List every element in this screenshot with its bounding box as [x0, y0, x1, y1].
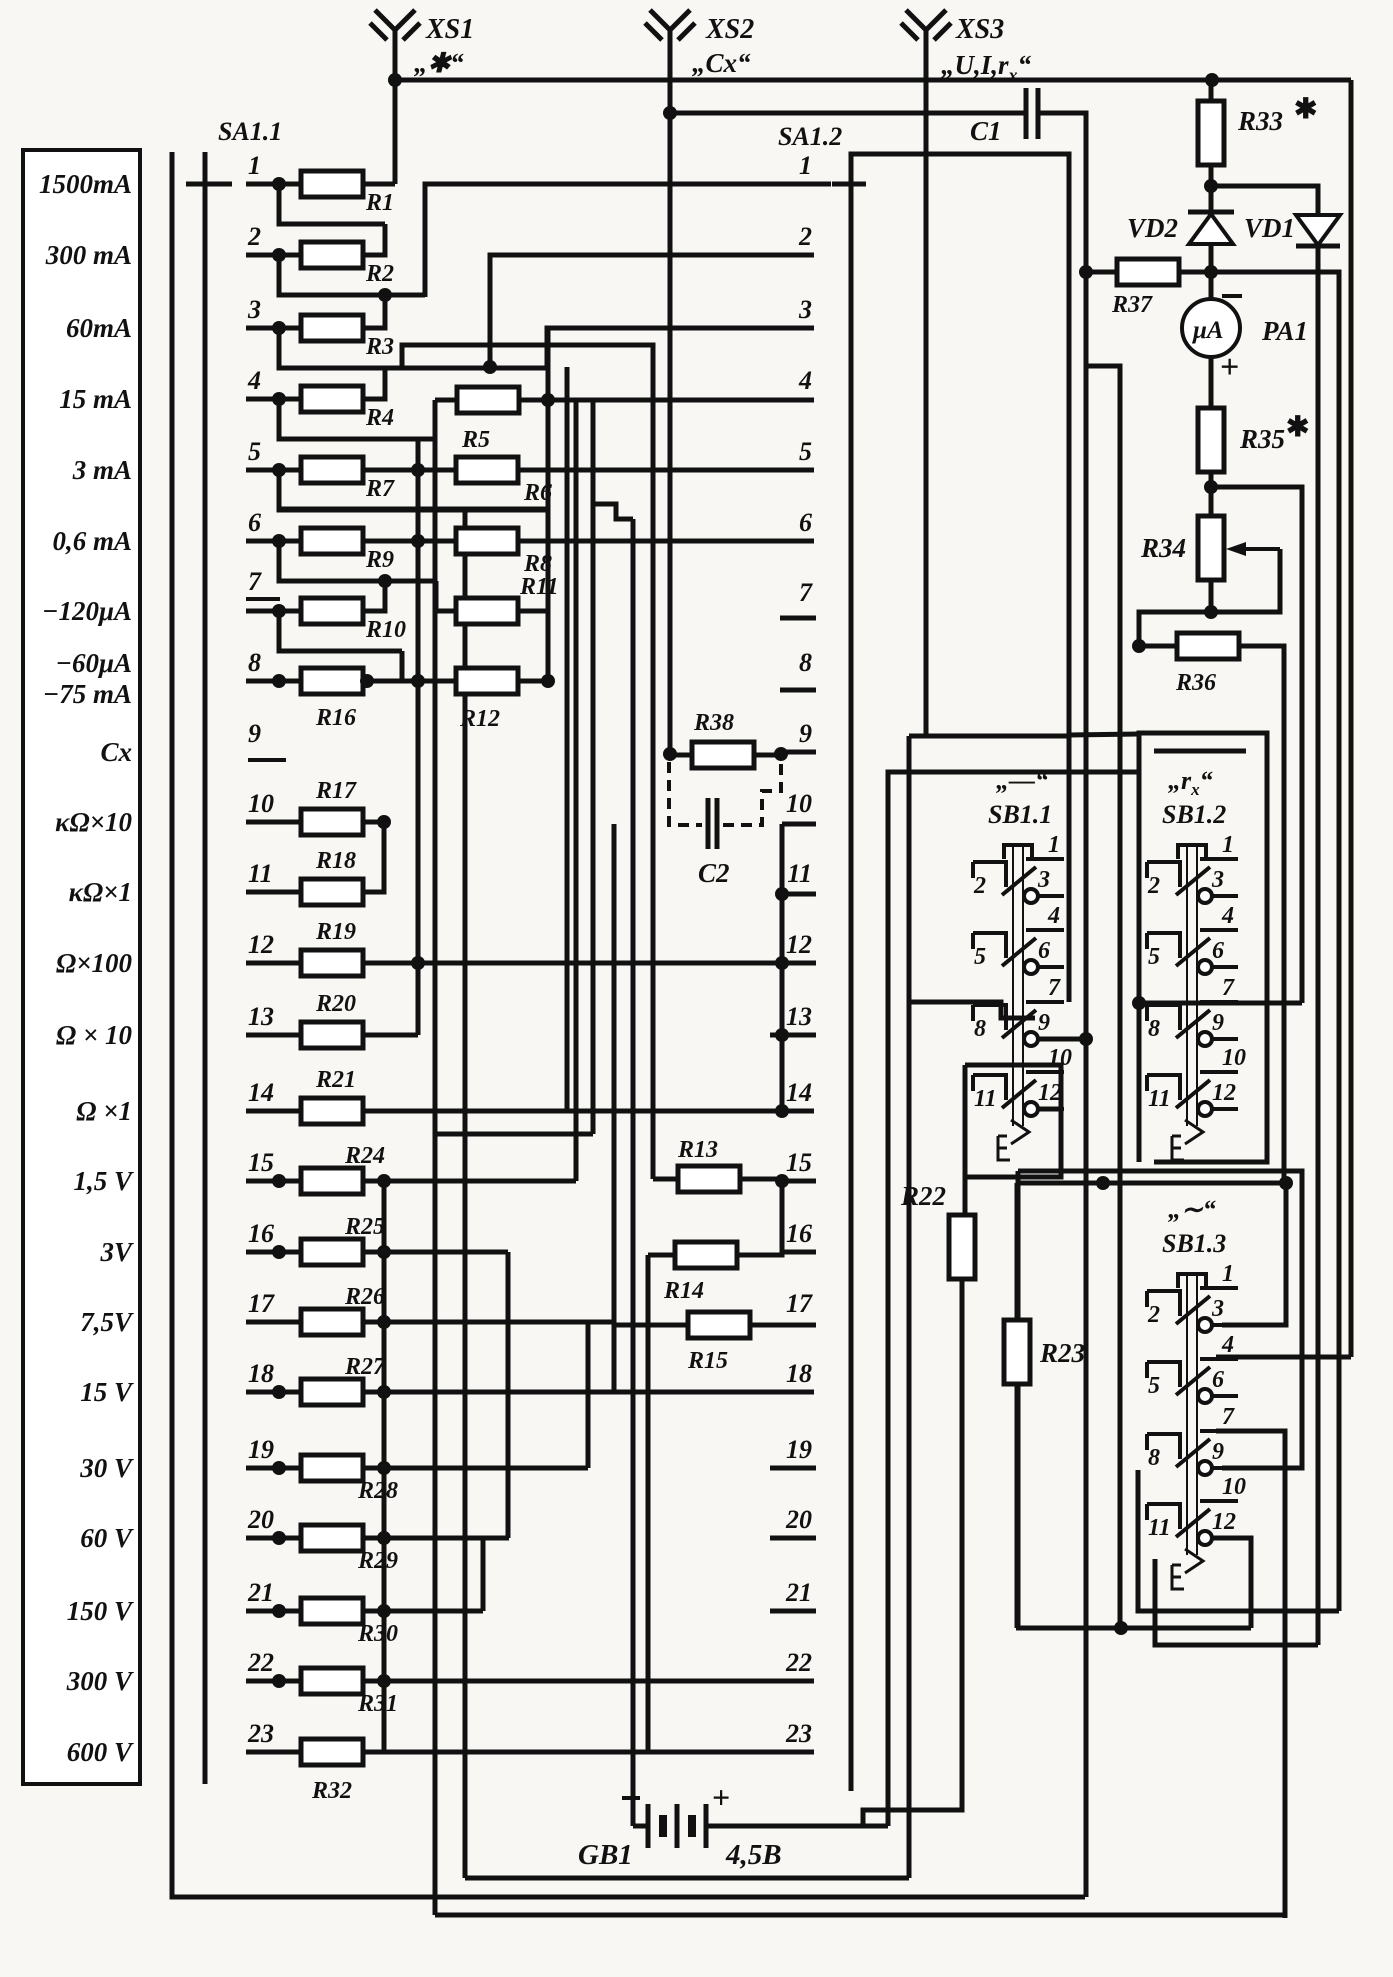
junction dot row20 riser — [377, 1531, 391, 1545]
wire right border — [1349, 80, 1354, 1357]
SA1.1 pin 9 number — [248, 719, 261, 748]
svg-text:VD1: VD1 — [1244, 213, 1295, 243]
svg-text:6: 6 — [1212, 1367, 1224, 1393]
junction dot pin13 chain — [775, 1028, 789, 1042]
wire rail7 drop — [400, 651, 405, 681]
svg-text:15 V: 15 V — [80, 1377, 134, 1407]
wire row6 line — [518, 539, 814, 544]
SA1.2 pin 11 number — [787, 859, 812, 888]
wire R34 top — [1209, 487, 1214, 516]
svg-text:3 mA: 3 mA — [72, 455, 132, 485]
wire riser R3 right — [363, 295, 385, 328]
svg-text:11: 11 — [787, 859, 812, 888]
resistor R35 — [1198, 408, 1309, 472]
junction dot R5 right — [541, 393, 555, 407]
wire riser x418 — [416, 437, 421, 1035]
junction dot pin 21 — [272, 1604, 286, 1618]
svg-text:1: 1 — [248, 151, 261, 180]
SA1.1 pin 16 number — [248, 1219, 274, 1248]
svg-text:11: 11 — [248, 859, 273, 888]
wire row21 line — [363, 1609, 483, 1614]
wire riser R28 right — [363, 1392, 384, 1468]
wire riser R30 right — [363, 1538, 384, 1611]
SA1.2 pin 19 number — [786, 1435, 812, 1464]
svg-text:5: 5 — [1148, 1373, 1160, 1399]
svg-text:R5: R5 — [461, 427, 490, 453]
junction dot row10 — [377, 815, 391, 829]
wire R6 left — [418, 468, 456, 473]
wire row14 line — [363, 1109, 814, 1114]
junction dot pin 19 — [272, 1461, 286, 1475]
junction dot net1183 a — [1096, 1176, 1110, 1190]
svg-text:22: 22 — [785, 1648, 812, 1677]
junction dot R13 right — [775, 1174, 789, 1188]
SA1.2 pin 16 stub — [782, 1250, 816, 1255]
wire riser x435 — [433, 400, 438, 1915]
svg-text:10: 10 — [1222, 1474, 1246, 1500]
svg-text:R35: R35 — [1239, 424, 1285, 454]
wire riser R32 right — [363, 1681, 384, 1752]
SA1.1 pin 19 number — [248, 1435, 274, 1464]
junction dot rail2 — [378, 288, 392, 302]
junction dot XS2 — [663, 106, 677, 120]
svg-text:4,5В: 4,5В — [725, 1839, 782, 1871]
svg-text:4: 4 — [247, 366, 261, 395]
wire R35 bottom — [1209, 472, 1214, 516]
SA1.2 pin 8 underline — [780, 688, 816, 693]
svg-text:R23: R23 — [1039, 1338, 1085, 1368]
junction dot pin12 chain — [775, 956, 789, 970]
wire R6 right riser — [518, 400, 548, 470]
SA1.1 pin 14 lead wire — [246, 1109, 302, 1114]
junction dot R38 left — [663, 747, 677, 761]
svg-text:R9: R9 — [365, 547, 394, 573]
resistor R22 — [900, 1181, 975, 1279]
svg-text:7: 7 — [1048, 975, 1061, 1001]
SA1.1 pin 2 number — [247, 222, 261, 251]
wire C2 dashed left — [669, 762, 702, 825]
svg-text:23: 23 — [247, 1719, 274, 1748]
wire SB1.3 bottom box — [1138, 1470, 1339, 1611]
resistor R2 — [301, 242, 394, 287]
wire row19 line — [363, 1466, 588, 1471]
svg-text:3: 3 — [1211, 867, 1224, 893]
wire staircase row4 drop — [437, 400, 633, 1134]
svg-text:4: 4 — [1221, 903, 1234, 929]
junction dot pin14 chain — [775, 1104, 789, 1118]
svg-text:2: 2 — [1147, 873, 1160, 899]
wire R37 right — [1179, 270, 1211, 275]
svg-text:3: 3 — [1037, 867, 1050, 893]
SA1.1 pin 22 number — [247, 1648, 274, 1677]
svg-text:−60μA: −60μA — [56, 648, 132, 678]
svg-text:15 mA: 15 mA — [59, 384, 132, 414]
SA1.2 pin 15 stub — [782, 1179, 816, 1184]
svg-text:17: 17 — [248, 1289, 275, 1318]
switch SA1.2 bus box — [851, 154, 1069, 1791]
SA1.1 pin 8 number — [248, 648, 261, 677]
wire R16 to R12 — [363, 679, 456, 684]
SA1.2 pin 1 number — [799, 151, 812, 180]
svg-text:30 V: 30 V — [79, 1453, 134, 1483]
svg-text:PA1: PA1 — [1261, 316, 1308, 346]
wire pin chain 10-14 — [780, 824, 785, 1111]
svg-text:R19: R19 — [315, 919, 356, 945]
wire VD1 branch — [1211, 186, 1318, 1645]
SA1.1 pin 6 number — [248, 508, 261, 537]
wire riser R25 right — [363, 1181, 384, 1252]
wire riser x588 — [586, 1322, 591, 1468]
junction dot pin 2 — [272, 248, 286, 262]
svg-text:1: 1 — [799, 151, 812, 180]
wire XS3 stem — [924, 64, 929, 736]
SA1.1 pin 21 number — [247, 1578, 274, 1607]
SA1.1 pin 19 lead wire — [246, 1466, 302, 1471]
wire row20 line — [363, 1536, 509, 1541]
wire R14 right — [737, 1181, 782, 1255]
svg-text:„✱“: „✱“ — [414, 48, 464, 78]
resistor R14 — [663, 1242, 737, 1304]
svg-text:3: 3 — [247, 295, 261, 324]
svg-text:C2: C2 — [698, 858, 730, 888]
svg-text:R31: R31 — [357, 1691, 398, 1717]
svg-text:R7: R7 — [365, 476, 395, 502]
svg-text:12: 12 — [1212, 1509, 1236, 1535]
switch SA1.1 label — [218, 117, 282, 146]
wire row18 line — [363, 1390, 814, 1395]
SA1.1 pin 15 lead wire — [246, 1179, 302, 1184]
wire row15 line — [363, 1179, 576, 1184]
svg-text:R4: R4 — [365, 405, 394, 431]
resistor R37 — [1111, 259, 1179, 318]
junction dot below R33 — [1204, 179, 1218, 193]
svg-text:600 V: 600 V — [67, 1737, 134, 1767]
junction dot rail6 — [378, 574, 392, 588]
svg-text:22: 22 — [247, 1648, 274, 1677]
SA1.1 pin 2 lead wire — [246, 253, 302, 258]
svg-text:12: 12 — [248, 930, 274, 959]
wire riser x614 — [612, 824, 617, 1392]
SA1.2 pin 2 number — [798, 222, 812, 251]
svg-text:7: 7 — [1222, 1404, 1235, 1430]
connector XS3 — [901, 10, 1032, 85]
connector XS1 — [370, 10, 474, 78]
svg-text:R13: R13 — [677, 1137, 718, 1163]
svg-text:3: 3 — [1211, 1296, 1224, 1322]
resistor R19 — [301, 919, 363, 976]
junction dot row17 riser — [377, 1315, 391, 1329]
wire riser x483 — [481, 1538, 486, 1611]
wire net1183 to SB1.3 contact3 — [1222, 1183, 1286, 1325]
svg-text:5: 5 — [974, 944, 986, 970]
svg-text:4: 4 — [1047, 903, 1060, 929]
wire rail below pin 1 — [279, 184, 385, 224]
svg-text:11: 11 — [1148, 1515, 1171, 1541]
SA1.2 pin 4 number — [798, 366, 812, 395]
junction dot row21 riser — [377, 1604, 391, 1618]
SA1.2 pin 17 stub — [750, 1323, 816, 1328]
connector XS2 — [645, 10, 754, 78]
wire R11 right — [518, 609, 548, 614]
svg-text:8: 8 — [1148, 1445, 1160, 1471]
resistor R26 — [301, 1284, 385, 1335]
junction dot pin11 chain — [775, 887, 789, 901]
junction dot rail3 riser — [483, 360, 497, 374]
wire SB1.1 circle9 link — [1038, 1037, 1086, 1042]
svg-text:R18: R18 — [315, 848, 356, 874]
resistor R17 — [301, 778, 363, 835]
wire meter top — [1209, 272, 1214, 299]
wire row5 line — [548, 468, 814, 473]
resistor R36 — [1175, 633, 1239, 696]
resistor R13 — [677, 1137, 740, 1192]
switch SA1.1 bus line B — [203, 152, 208, 1784]
SA1.1 pin 4 number — [247, 366, 261, 395]
junction dot pin 4 — [272, 392, 286, 406]
SA1.2 pin 13 number — [786, 1002, 812, 1031]
svg-text:κΩ×10: κΩ×10 — [55, 807, 132, 837]
svg-text:1: 1 — [1048, 832, 1060, 858]
svg-text:9: 9 — [799, 719, 812, 748]
wire SB1.1 circle12 stub — [1038, 1107, 1061, 1112]
SA1.2 pin 17 number — [786, 1289, 813, 1318]
svg-text:0,6 mA: 0,6 mA — [52, 526, 132, 556]
SA1.1 pin 23 number — [247, 1719, 274, 1748]
SA1.2 pin 21 stub — [770, 1609, 816, 1614]
wire R34 to R36 — [1139, 612, 1211, 646]
svg-text:6: 6 — [1038, 938, 1050, 964]
SA1.1 pin 10 number — [248, 789, 274, 818]
svg-text:C1: C1 — [970, 116, 1002, 146]
resistor R33 — [1198, 94, 1317, 165]
SA1.2 pin 21 number — [785, 1578, 812, 1607]
wire riser x508 — [506, 1252, 511, 1538]
junction dot below R35 — [1204, 480, 1218, 494]
resistor R29 — [301, 1525, 398, 1574]
wire rail below pin 5 — [279, 470, 548, 510]
wire GB1 plus — [706, 1824, 888, 1829]
junction dot XS1 — [388, 73, 402, 87]
svg-text:SB1.1: SB1.1 — [988, 800, 1052, 829]
wire SB1.2 contact7 line — [1139, 1001, 1302, 1006]
svg-text:R28: R28 — [357, 1478, 398, 1504]
junction dot R6 left — [411, 463, 425, 477]
wire VD2 bottom — [1209, 244, 1214, 272]
svg-text:R32: R32 — [311, 1778, 352, 1804]
junction dot R12 left b — [360, 674, 374, 688]
svg-text:R1: R1 — [365, 190, 394, 216]
svg-text:R3: R3 — [365, 334, 394, 360]
svg-text:4: 4 — [798, 366, 812, 395]
svg-text:R36: R36 — [1175, 670, 1216, 696]
svg-text:14: 14 — [786, 1078, 812, 1107]
SA1.2 pin 12 stub — [770, 961, 816, 966]
SA1.2 pin 6 number — [799, 508, 812, 537]
svg-text:GB1: GB1 — [578, 1839, 633, 1871]
junction dot net1183 b — [1279, 1176, 1293, 1190]
junction dot pin 6 — [272, 534, 286, 548]
svg-text:„Cx“: „Cx“ — [692, 48, 751, 78]
SA1.2 pin 18 number — [786, 1359, 812, 1388]
wire row4 line — [548, 398, 814, 403]
junction dot R38 right — [774, 747, 788, 761]
wire R14 left — [648, 1253, 675, 1258]
wire box 1645 — [1155, 1559, 1318, 1645]
svg-text:1,5 V: 1,5 V — [73, 1166, 134, 1196]
resistor R24 — [301, 1143, 385, 1194]
svg-text:19: 19 — [786, 1435, 812, 1464]
SA1.2 pin 12 number — [786, 930, 812, 959]
svg-text:✱: ✱ — [1294, 94, 1317, 125]
wire riser R18 right — [363, 822, 384, 892]
svg-text:21: 21 — [785, 1578, 812, 1607]
SA1.1 pin 6 lead wire — [246, 539, 302, 544]
wire row5 rail — [279, 470, 548, 509]
SA1.2 pin 9 number — [799, 719, 812, 748]
junction dot pin 5 — [272, 463, 286, 477]
SA1.1 pin 12 lead wire — [246, 961, 302, 966]
SA1.1 pin 20 lead wire — [246, 1536, 302, 1541]
svg-text:16: 16 — [786, 1219, 812, 1248]
svg-text:150 V: 150 V — [67, 1596, 134, 1626]
SA1.1 pin 14 number — [248, 1078, 274, 1107]
svg-text:2: 2 — [973, 873, 986, 899]
svg-text:12: 12 — [1038, 1080, 1062, 1106]
junction dot pin 3 — [272, 321, 286, 335]
svg-text:11: 11 — [974, 1086, 997, 1112]
svg-text:15: 15 — [786, 1148, 812, 1177]
svg-text:−120μA: −120μA — [42, 596, 132, 626]
junction dot pin 8 — [272, 674, 286, 688]
svg-text:60mA: 60mA — [66, 313, 132, 343]
battery GB1 — [578, 1779, 782, 1871]
switch SB1.1 — [973, 766, 1072, 1160]
wire meter node right — [1211, 272, 1339, 1611]
SA1.2 pin 19 stub — [770, 1466, 816, 1471]
SA1.1 pin 13 number — [248, 1002, 274, 1031]
resistor R4 — [301, 386, 394, 431]
svg-text:R11: R11 — [519, 574, 559, 600]
svg-text:16: 16 — [248, 1219, 274, 1248]
wire R9 right — [363, 539, 418, 544]
wire R5 left — [435, 398, 457, 403]
resistor R11 — [456, 574, 559, 624]
junction dot row19 riser — [377, 1461, 391, 1475]
junction dot SB1.2 contact7 — [1132, 996, 1146, 1010]
SA1.1 pin 10 lead wire — [246, 820, 302, 825]
junction dot R36 left — [1132, 639, 1146, 653]
wire C2 dashed right — [723, 762, 781, 825]
resistor R27 — [301, 1354, 386, 1405]
resistor R23 — [1004, 1320, 1085, 1384]
svg-text:12: 12 — [786, 930, 812, 959]
resistor R30 — [301, 1598, 398, 1647]
SA1.1 pin 4 lead wire — [246, 397, 302, 402]
SA1.1 pin 18 lead wire — [246, 1390, 302, 1395]
wire R22 bottom — [863, 1280, 962, 1826]
resistor R6 — [456, 457, 552, 506]
svg-text:11: 11 — [1148, 1086, 1171, 1112]
svg-text:„rx“: „rx“ — [1168, 766, 1213, 799]
svg-text:17: 17 — [786, 1289, 813, 1318]
svg-text:13: 13 — [786, 1002, 812, 1031]
wire SB1.1 left drop — [907, 736, 912, 1878]
wire R13 right — [740, 1177, 782, 1182]
SA1.2 pin 16 number — [786, 1219, 812, 1248]
wire riser x465 — [463, 509, 468, 1878]
junction dot R12 left a — [411, 674, 425, 688]
SA1.1 pin 9 underline — [248, 758, 286, 762]
switch SB1.2 — [1147, 766, 1246, 1160]
svg-text:SA1.2: SA1.2 — [778, 122, 842, 151]
SA1.2 pin 8 number — [799, 648, 812, 677]
wire net 1628 — [1016, 1626, 1251, 1631]
resistor R25 — [301, 1214, 385, 1265]
junction dot row22 riser — [377, 1674, 391, 1688]
wire SB1.1 guard — [888, 772, 1139, 1826]
svg-text:R14: R14 — [663, 1278, 704, 1304]
SA1.1 pin 11 lead wire — [246, 890, 302, 895]
wire SB1.3 circle12 link — [1211, 1538, 1251, 1628]
svg-text:μA: μA — [1191, 317, 1224, 344]
SA1.1 pin 16 lead wire — [246, 1250, 302, 1255]
junction dot R12 right — [541, 674, 555, 688]
SA1.1 pin 11 number — [248, 859, 273, 888]
wire R15 left — [614, 1323, 688, 1328]
svg-text:R26: R26 — [344, 1284, 385, 1310]
svg-text:Cx: Cx — [100, 737, 132, 767]
capacitor C1 — [970, 88, 1038, 146]
wire row17 line — [363, 1320, 613, 1325]
junction dot row16 riser — [377, 1245, 391, 1259]
svg-text:15: 15 — [248, 1148, 274, 1177]
wire R34 bottom — [1209, 580, 1214, 612]
wire R23 bottom — [1015, 1384, 1020, 1628]
svg-text:SB1.3: SB1.3 — [1162, 1229, 1226, 1258]
svg-text:R30: R30 — [357, 1621, 398, 1647]
SA1.2 pin 14 number — [786, 1078, 812, 1107]
resistor R7 — [301, 457, 395, 502]
wire bottom line 2 — [435, 1913, 1285, 1918]
svg-text:2: 2 — [798, 222, 812, 251]
svg-text:10: 10 — [248, 789, 274, 818]
wire battery box bottom — [465, 1876, 909, 1881]
junction dot pin 1 — [272, 177, 286, 191]
wire row16 line — [363, 1250, 508, 1255]
svg-text:8: 8 — [799, 648, 812, 677]
switch SB1.3 box — [1018, 1171, 1302, 1468]
svg-text:SA1.1: SA1.1 — [218, 117, 282, 146]
wire R38 left — [670, 753, 692, 758]
wire row22 line — [363, 1679, 814, 1684]
wire row13 line — [363, 1033, 418, 1038]
svg-text:300 V: 300 V — [66, 1666, 134, 1696]
SA1.2 pin 10 number — [786, 789, 812, 818]
wire riser R29 right — [363, 1468, 384, 1538]
wire rail below pin 6 — [279, 541, 436, 581]
resistor R8 — [456, 528, 552, 577]
junction dot net1628 — [1114, 1621, 1128, 1635]
resistor R28 — [301, 1455, 398, 1504]
SA1.1 pin 22 lead wire — [246, 1679, 302, 1684]
wire rail3 bridge — [402, 345, 653, 1179]
wire net 1183 — [1017, 1181, 1286, 1186]
wire R1 right to XS1 — [363, 182, 395, 187]
wire R17 right — [363, 820, 384, 825]
svg-text:7: 7 — [1222, 975, 1235, 1001]
svg-text:R34: R34 — [1140, 533, 1186, 563]
svg-text:19: 19 — [248, 1435, 274, 1464]
